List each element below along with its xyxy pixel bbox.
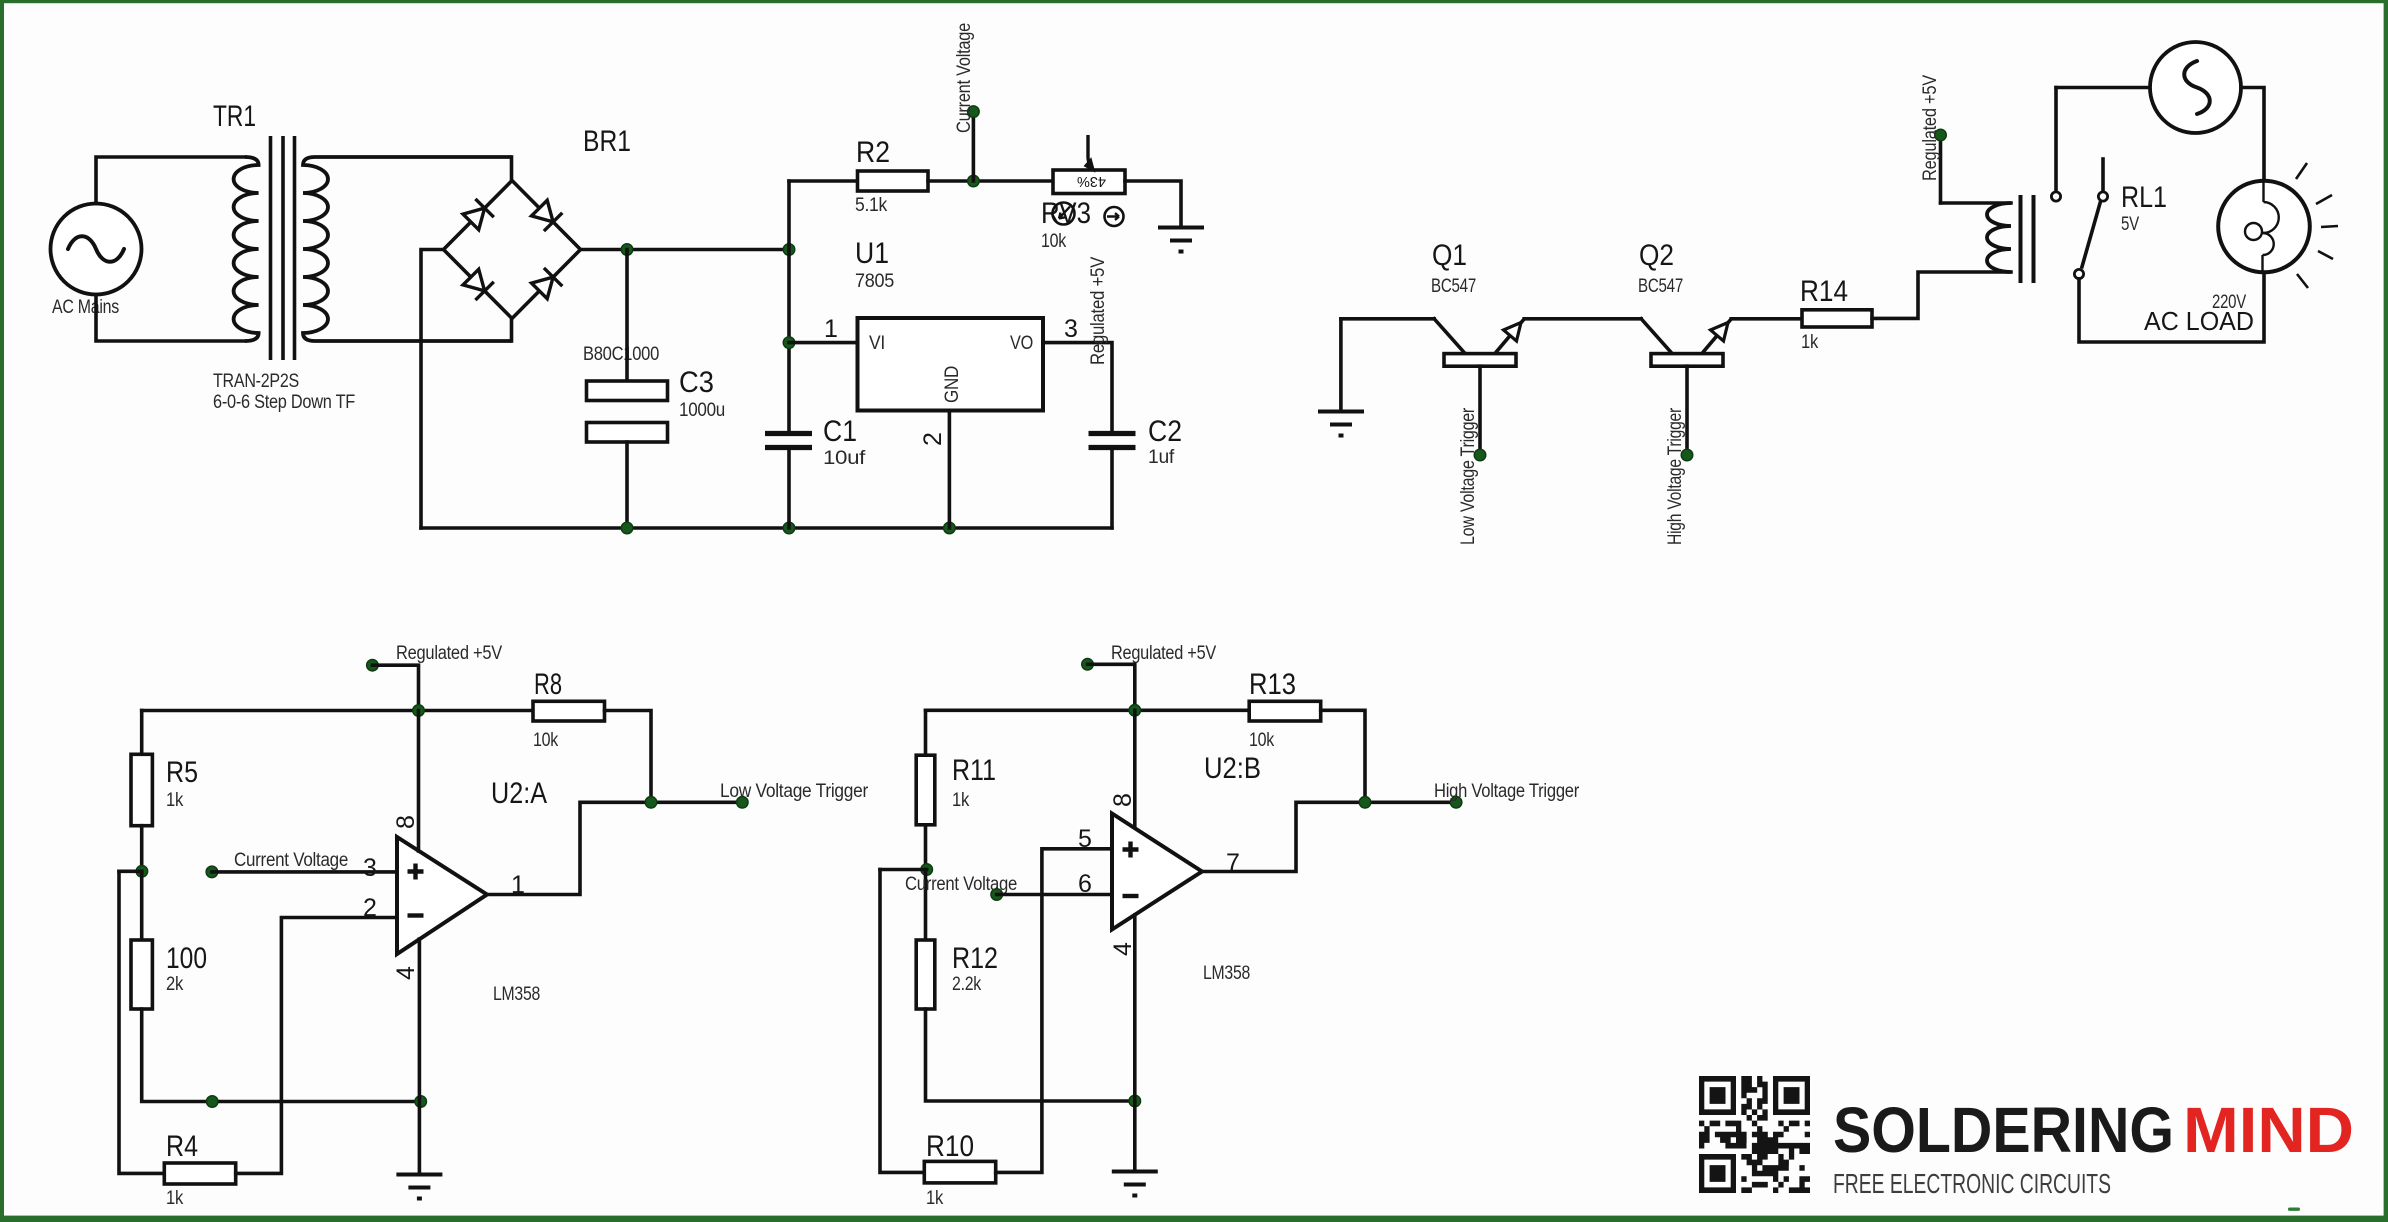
wire rail bbox=[926, 708, 1250, 712]
wire bbox=[140, 826, 144, 872]
node Low Voltage Trigger bbox=[1474, 449, 1486, 461]
svg-text:R11: R11 bbox=[952, 754, 996, 787]
svg-text:5.1k: 5.1k bbox=[855, 195, 888, 216]
op-amp U2:B bbox=[1112, 752, 1261, 984]
resistor R4 bbox=[164, 1130, 235, 1209]
svg-text:Current Voltage: Current Voltage bbox=[954, 23, 975, 133]
wire bbox=[2079, 273, 2264, 343]
svg-text:1k: 1k bbox=[1801, 332, 1819, 353]
wire bbox=[926, 1009, 1135, 1101]
transistor Q2 BC547 bbox=[1638, 239, 1731, 366]
svg-text:RL1: RL1 bbox=[2121, 181, 2167, 214]
svg-text:10k: 10k bbox=[1041, 231, 1067, 252]
node junction bbox=[136, 866, 148, 878]
capacitor C2 bbox=[1089, 415, 1183, 468]
node Regulated +5V bbox=[367, 659, 379, 671]
bridge rectifier BR1 bbox=[444, 125, 660, 365]
svg-text:BC547: BC547 bbox=[1431, 276, 1476, 297]
svg-text:AC Mains: AC Mains bbox=[52, 297, 119, 318]
svg-text:Low Voltage Trigger: Low Voltage Trigger bbox=[1458, 407, 1479, 545]
wire bbox=[119, 871, 164, 1173]
node junction bbox=[1129, 1095, 1141, 1107]
wire bbox=[236, 918, 397, 1174]
wire bbox=[372, 665, 418, 710]
potentiometer RV3 bbox=[1041, 135, 1125, 252]
node junction bbox=[621, 522, 633, 534]
svg-text:TR1: TR1 bbox=[213, 100, 256, 133]
wire bbox=[996, 849, 1112, 1173]
wire bbox=[924, 870, 928, 941]
svg-text:GND: GND bbox=[942, 366, 963, 403]
svg-text:TRAN-2P2S: TRAN-2P2S bbox=[213, 371, 299, 392]
wire bbox=[1731, 317, 1802, 321]
resistor R2 bbox=[855, 136, 928, 216]
wire bbox=[787, 181, 791, 431]
wire V+ bbox=[417, 711, 421, 852]
ground bbox=[396, 1175, 442, 1199]
svg-text:Regulated +5V: Regulated +5V bbox=[1111, 643, 1217, 664]
wire bbox=[510, 157, 514, 181]
svg-text:Q2: Q2 bbox=[1639, 239, 1674, 272]
wire rail bbox=[142, 709, 533, 713]
node junction bbox=[1129, 705, 1141, 717]
svg-text:1k: 1k bbox=[952, 790, 970, 811]
node junction bbox=[921, 864, 933, 876]
wire bbox=[789, 179, 858, 183]
svg-text:SOLDERING: SOLDERING bbox=[1833, 1094, 2174, 1166]
wire bbox=[880, 868, 927, 872]
wire bbox=[1941, 201, 2012, 205]
svg-text:MIND: MIND bbox=[2183, 1094, 2354, 1166]
svg-text:BC547: BC547 bbox=[1638, 276, 1683, 297]
svg-text:5: 5 bbox=[1078, 825, 1092, 853]
svg-text:1: 1 bbox=[511, 871, 525, 899]
wire bbox=[787, 450, 791, 528]
svg-text:10uf: 10uf bbox=[823, 448, 866, 469]
svg-text:2k: 2k bbox=[166, 974, 184, 995]
wire bbox=[1321, 710, 1365, 802]
node junction bbox=[783, 244, 795, 256]
wire pin VI bbox=[789, 341, 858, 345]
svg-text:1uf: 1uf bbox=[1148, 447, 1175, 468]
svg-text:6: 6 bbox=[1078, 870, 1092, 898]
svg-text:C2: C2 bbox=[1148, 415, 1182, 448]
svg-text:LM358: LM358 bbox=[1203, 963, 1250, 984]
svg-text:1k: 1k bbox=[166, 790, 184, 811]
node High Voltage Trigger bbox=[1450, 797, 1462, 809]
resistor 100 (2k) bbox=[131, 940, 207, 1009]
svg-text:1: 1 bbox=[824, 315, 838, 343]
svg-text:FREE ELECTRONIC CIRCUITS: FREE ELECTRONIC CIRCUITS bbox=[1833, 1168, 2111, 1199]
svg-text:6-0-6 Step Down TF: 6-0-6 Step Down TF bbox=[213, 392, 355, 413]
node junction bbox=[206, 1096, 218, 1108]
svg-text:Regulated +5V: Regulated +5V bbox=[1088, 256, 1109, 365]
svg-text:R2: R2 bbox=[856, 136, 890, 169]
svg-text:8: 8 bbox=[392, 815, 420, 829]
svg-text:VI: VI bbox=[869, 333, 885, 354]
node Regulated +5V bbox=[1082, 659, 1094, 671]
svg-text:2: 2 bbox=[919, 432, 947, 446]
wire V- bbox=[1133, 915, 1137, 1170]
svg-text:3: 3 bbox=[363, 854, 377, 882]
ground bbox=[1112, 1172, 1158, 1196]
wire bbox=[928, 179, 1053, 183]
wire bbox=[140, 871, 144, 940]
wire bbox=[140, 711, 144, 755]
svg-text:AC LOAD: AC LOAD bbox=[2144, 306, 2254, 336]
wire bbox=[1341, 317, 1434, 321]
node junction bbox=[783, 337, 795, 349]
node junction bbox=[944, 522, 956, 534]
wire bbox=[96, 157, 245, 204]
svg-text:BR1: BR1 bbox=[583, 125, 631, 158]
svg-text:7: 7 bbox=[1226, 849, 1240, 877]
QR code bbox=[1699, 1076, 1810, 1193]
wire pin GND bbox=[948, 411, 952, 529]
wire bbox=[1110, 450, 1114, 528]
svg-text:10k: 10k bbox=[533, 730, 559, 751]
svg-text:1000u: 1000u bbox=[679, 400, 725, 421]
green swoosh bbox=[2288, 1208, 2300, 1211]
node Current Voltage bbox=[968, 106, 980, 118]
wire bbox=[1939, 135, 1943, 203]
wire bbox=[2056, 86, 2150, 90]
wire bbox=[2241, 88, 2264, 182]
capacitor C3 bbox=[587, 366, 726, 442]
wire bbox=[924, 825, 928, 870]
svg-text:B80C1000: B80C1000 bbox=[583, 344, 659, 365]
node High Voltage Trigger bbox=[1681, 449, 1693, 461]
svg-text:R12: R12 bbox=[952, 942, 998, 975]
svg-text:R10: R10 bbox=[926, 1130, 974, 1163]
ground bbox=[1158, 228, 1204, 252]
svg-text:8: 8 bbox=[1109, 793, 1137, 807]
node Current Voltage bbox=[991, 889, 1003, 901]
regulator U1 7805 bbox=[855, 237, 1043, 411]
node Low Voltage Trigger bbox=[737, 797, 749, 809]
wire V+ bbox=[1133, 710, 1137, 827]
capacitor C1 bbox=[765, 415, 866, 469]
node junction bbox=[968, 175, 980, 187]
AC source V1 (AC Mains) bbox=[51, 204, 142, 319]
node Current Voltage bbox=[206, 866, 218, 878]
transformer TR1 bbox=[213, 100, 512, 413]
wire base bbox=[1478, 366, 1482, 455]
node Regulated +5V bbox=[1935, 129, 1947, 141]
svg-text:1k: 1k bbox=[926, 1188, 944, 1209]
wire V- bbox=[418, 939, 422, 1173]
lamp (AC LOAD) bbox=[2144, 163, 2338, 336]
svg-text:High Voltage Trigger: High Voltage Trigger bbox=[1434, 781, 1580, 802]
svg-text:C1: C1 bbox=[823, 415, 857, 448]
wire bbox=[972, 112, 976, 181]
wire pin VO bbox=[1043, 343, 1112, 431]
node junction bbox=[621, 244, 633, 256]
resistor R5 bbox=[131, 754, 198, 825]
svg-text:U2:B: U2:B bbox=[1204, 752, 1261, 785]
resistor R8 bbox=[533, 668, 605, 751]
svg-text:R13: R13 bbox=[1249, 668, 1296, 701]
svg-text:Q1: Q1 bbox=[1432, 239, 1467, 272]
wire bbox=[1641, 319, 1671, 353]
wire bbox=[96, 295, 245, 342]
svg-text:2.2k: 2.2k bbox=[952, 974, 982, 995]
wire base bbox=[1685, 366, 1689, 455]
svg-text:R14: R14 bbox=[1800, 275, 1848, 308]
svg-text:1k: 1k bbox=[166, 1188, 184, 1209]
wire bbox=[581, 248, 790, 252]
svg-text:2: 2 bbox=[363, 894, 377, 922]
transistor Q1 BC547 bbox=[1431, 239, 1524, 366]
resistor R10 bbox=[924, 1130, 995, 1209]
relay switch RL1 bbox=[2051, 88, 2167, 279]
svg-text:R4: R4 bbox=[166, 1130, 198, 1163]
wire output bbox=[487, 802, 742, 894]
wire bbox=[997, 893, 1112, 897]
node junction bbox=[413, 705, 425, 717]
wire bbox=[880, 870, 924, 1173]
wire bbox=[1434, 319, 1464, 353]
wire bbox=[212, 870, 397, 874]
svg-text:Current Voltage: Current Voltage bbox=[905, 874, 1017, 895]
svg-text:U1: U1 bbox=[855, 237, 889, 270]
svg-text:Low Voltage Trigger: Low Voltage Trigger bbox=[720, 781, 869, 802]
ground rail wire bbox=[421, 526, 1112, 530]
svg-text:43%: 43% bbox=[1077, 173, 1106, 189]
node junction bbox=[645, 797, 657, 809]
svg-text:VO: VO bbox=[1010, 333, 1033, 354]
svg-text:4: 4 bbox=[1109, 942, 1137, 956]
wire bbox=[625, 442, 629, 528]
wire bbox=[1872, 272, 2011, 318]
svg-text:LM358: LM358 bbox=[493, 984, 540, 1005]
wire bbox=[1524, 317, 1641, 321]
op-amp U2:A bbox=[397, 777, 547, 1005]
AC source (load supply) bbox=[2150, 42, 2241, 133]
wire bbox=[605, 711, 652, 803]
node junction bbox=[1359, 797, 1371, 809]
resistor R11 bbox=[916, 754, 996, 825]
svg-text:High Voltage Trigger: High Voltage Trigger bbox=[1665, 407, 1686, 545]
wire output bbox=[1202, 802, 1456, 871]
wire bbox=[924, 710, 928, 755]
node junction bbox=[783, 522, 795, 534]
node junction bbox=[415, 1096, 427, 1108]
wire bbox=[142, 1009, 421, 1102]
resistor R12 bbox=[916, 940, 998, 1009]
wire bbox=[119, 869, 142, 873]
relay coil RL1 bbox=[1987, 195, 2033, 283]
wire bbox=[421, 250, 444, 529]
svg-text:4: 4 bbox=[392, 966, 420, 980]
svg-text:Current Voltage: Current Voltage bbox=[234, 850, 348, 871]
svg-text:Regulated +5V: Regulated +5V bbox=[396, 643, 503, 664]
svg-text:R5: R5 bbox=[166, 756, 198, 789]
svg-text:100: 100 bbox=[166, 942, 207, 975]
svg-text:U2:A: U2:A bbox=[491, 777, 547, 810]
resistor R14 bbox=[1800, 275, 1872, 353]
wire bbox=[625, 250, 629, 382]
wire bbox=[510, 319, 514, 342]
svg-text:C3: C3 bbox=[679, 366, 714, 399]
wire bbox=[1125, 181, 1181, 226]
wire bbox=[1339, 319, 1343, 410]
svg-text:R8: R8 bbox=[534, 668, 562, 701]
resistor R13 bbox=[1249, 668, 1321, 751]
svg-text:7805: 7805 bbox=[855, 271, 894, 292]
ground bbox=[1318, 412, 1364, 436]
svg-text:3: 3 bbox=[1064, 315, 1078, 343]
svg-text:Regulated +5V: Regulated +5V bbox=[1920, 74, 1941, 181]
svg-text:5V: 5V bbox=[2121, 214, 2139, 235]
wire bbox=[1088, 664, 1135, 710]
svg-text:10k: 10k bbox=[1249, 730, 1275, 751]
